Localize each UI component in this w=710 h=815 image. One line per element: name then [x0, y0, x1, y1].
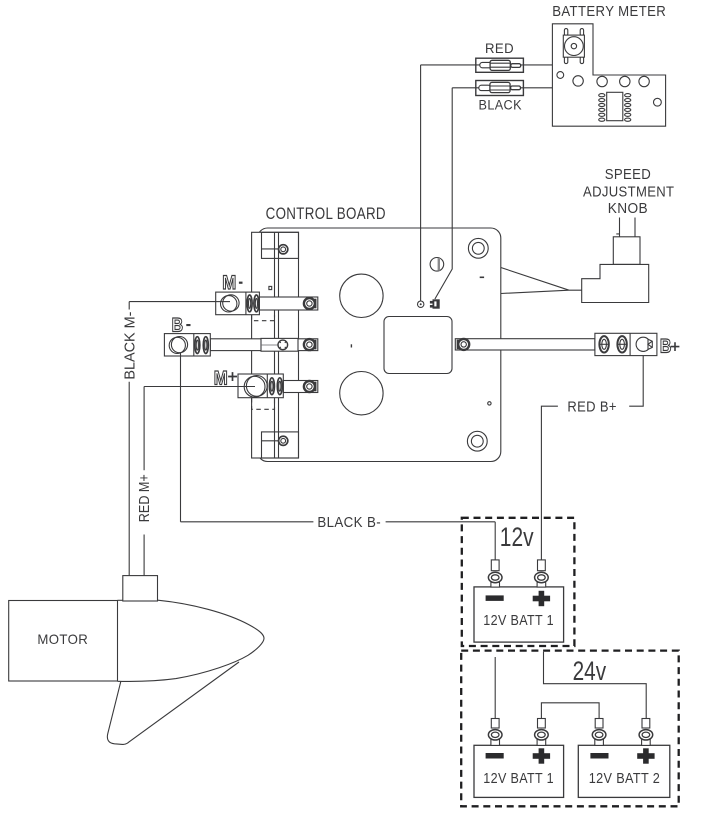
wire BLACK B- drop to battery: [494, 522, 496, 560]
control board minus mark: [480, 276, 484, 278]
svg-text:RED B+: RED B+: [567, 399, 616, 416]
wire through BLACK connector: [476, 87, 524, 89]
motor fin: [107, 662, 239, 744]
control board screw pot: [430, 258, 444, 272]
svg-text:B: B: [172, 314, 184, 336]
battery meter hole 1: [573, 76, 583, 86]
battery meter IC U1: [607, 92, 623, 120]
label M+: [214, 367, 237, 389]
bus strip bottom screw block: [262, 432, 299, 458]
motor neck joint: [118, 599, 123, 601]
wire into M- ring: [216, 301, 230, 303]
connector BLACK bullet: [479, 85, 491, 90]
B- ring terminal: [304, 339, 315, 350]
wire RED meter vertical: [420, 65, 422, 301]
speed knob top: [613, 237, 640, 265]
svg-text:SPEED: SPEED: [605, 166, 651, 183]
wire BLACK meter inside board: [435, 228, 452, 299]
knob wires: [616, 218, 635, 237]
batt1b plus symbol: [533, 748, 550, 763]
batt1 minus symbol: [486, 595, 504, 601]
motor shaft: [123, 576, 158, 601]
control board mount hole bottom-right: [467, 431, 487, 451]
motor housing: [9, 601, 118, 682]
svg-text:BLACK M-: BLACK M-: [122, 312, 139, 380]
battery meter PCB outline: [552, 24, 665, 126]
connector BLACK tab: [511, 86, 521, 90]
wire RED M+ horizontal: [144, 386, 255, 388]
bus strip outline: [252, 232, 299, 458]
control board mount hole top-right: [468, 238, 488, 258]
connector RED fuse outer: [476, 58, 524, 72]
wire RED meter horizontal: [421, 64, 553, 66]
svg-text:BLACK B-: BLACK B-: [317, 514, 381, 531]
M- terminal block: [216, 292, 260, 315]
wire RED meter inside board: [420, 228, 422, 301]
battery meter hole 4: [639, 76, 649, 86]
battery meter buzzer center hole: [571, 43, 576, 48]
wire into M+ ring: [238, 386, 255, 388]
wire RED M+ vertical (gap for label): [143, 387, 145, 576]
connector BLACK barrel: [490, 82, 510, 92]
control board black connector (BLACK wire): [430, 299, 440, 308]
24v posts: [488, 719, 652, 746]
bus strip top screw block: [262, 232, 299, 258]
control board outline: [258, 228, 501, 462]
wire BLACK meter vertical+diagonal: [435, 88, 452, 299]
svg-text:MOTOR: MOTOR: [37, 631, 88, 647]
batt2 minus symbol: [590, 753, 608, 759]
B+ bar: [455, 339, 595, 350]
wire BLACK meter horizontal: [452, 87, 552, 89]
svg-text:12V BATT 2: 12V BATT 2: [589, 771, 661, 787]
svg-text:M: M: [214, 367, 228, 389]
B+ terminal block: [595, 333, 657, 355]
wire 24v to batt2 plus: [544, 652, 647, 719]
wires board to knob: [501, 268, 582, 294]
control board tiny dot: [488, 402, 491, 405]
battery meter buzzer legs: [564, 29, 583, 64]
wire jumper batt1+ to batt2-: [541, 703, 599, 719]
wire through RED connector: [476, 64, 523, 66]
wire BLACK M- vertical (gap for label): [128, 302, 130, 576]
motor body: [118, 600, 265, 681]
label B+: [660, 335, 680, 357]
svg-text:RED M+: RED M+: [136, 474, 153, 522]
svg-text:BATTERY METER: BATTERY METER: [552, 4, 666, 20]
wire stub from B- ring: [180, 353, 182, 356]
svg-text:ADJUSTMENT: ADJUSTMENT: [583, 183, 674, 200]
battery meter IC pins right: [625, 94, 631, 122]
wire RED B+ from block: [541, 351, 643, 560]
M+ terminal block: [238, 374, 283, 398]
12v battery box dashed: [462, 518, 575, 646]
batt1 plus symbol: [533, 591, 550, 606]
24v battery box dashed: [461, 651, 679, 807]
label B-: [172, 314, 191, 336]
battery meter hole small left: [557, 72, 564, 79]
batt2 plus symbol: [637, 748, 654, 763]
battery meter buzzer circle: [565, 37, 584, 56]
battery meter hole 3: [620, 76, 630, 86]
battery meter buzzer body: [563, 35, 584, 57]
battery 12V BATT 2 bottom: [578, 745, 670, 797]
wire BLACK B- horizontal (gap for label): [181, 521, 496, 523]
control board terminal dot (RED wire): [418, 301, 424, 307]
connector RED bullet: [480, 62, 492, 67]
connector RED tab: [511, 64, 521, 68]
battery meter hole right: [654, 98, 662, 106]
wire BLACK B- vertical from B- block: [180, 346, 182, 522]
svg-text:12V BATT 1: 12V BATT 1: [483, 613, 554, 629]
battery meter hole 2: [597, 76, 607, 86]
batt1 post right: [535, 560, 549, 587]
battery 12V BATT 1 top: [474, 587, 564, 642]
svg-text:CONTROL BOARD: CONTROL BOARD: [266, 205, 386, 223]
dashed hidden outline under M+: [252, 398, 275, 409]
M- bar to ring: [259, 297, 317, 310]
wire BLACK M- horizontal: [129, 301, 230, 303]
svg-text:KNOB: KNOB: [608, 200, 648, 217]
batt1b minus symbol: [486, 753, 504, 759]
batt1 post left: [488, 560, 502, 587]
svg-text:BLACK: BLACK: [479, 98, 522, 113]
svg-text:M: M: [222, 272, 236, 294]
speed knob body: [582, 264, 649, 302]
B+ ring terminal left: [458, 339, 469, 350]
control board hole big top: [340, 274, 383, 317]
connector RED barrel: [490, 60, 510, 70]
svg-text:12v: 12v: [500, 522, 534, 552]
bus strip rails: [275, 232, 279, 458]
svg-text:12V BATT 1: 12V BATT 1: [483, 771, 554, 787]
M+ ring terminal: [304, 381, 315, 392]
B- terminal block: [164, 334, 210, 356]
M- ring terminal: [304, 298, 315, 309]
control board tiny tick: [351, 344, 352, 347]
M+ bar to ring: [283, 381, 318, 393]
battery 12V BATT 1 bottom: [474, 745, 564, 797]
svg-text:24v: 24v: [573, 656, 607, 686]
label M-: [222, 272, 242, 294]
wire 24v stub to batt1 minus: [494, 657, 496, 719]
B- bar to ring: [210, 339, 317, 351]
dashed hidden outline under M-: [252, 315, 275, 321]
control board hole big bottom: [340, 372, 383, 415]
B- pad with hole: [261, 338, 298, 351]
battery meter IC pins left: [599, 94, 605, 122]
svg-text:B: B: [660, 335, 672, 357]
bus strip tiny square: [269, 286, 272, 289]
svg-text:RED: RED: [485, 41, 514, 56]
control board relay: [384, 317, 452, 374]
connector BLACK fuse outer: [476, 81, 524, 96]
